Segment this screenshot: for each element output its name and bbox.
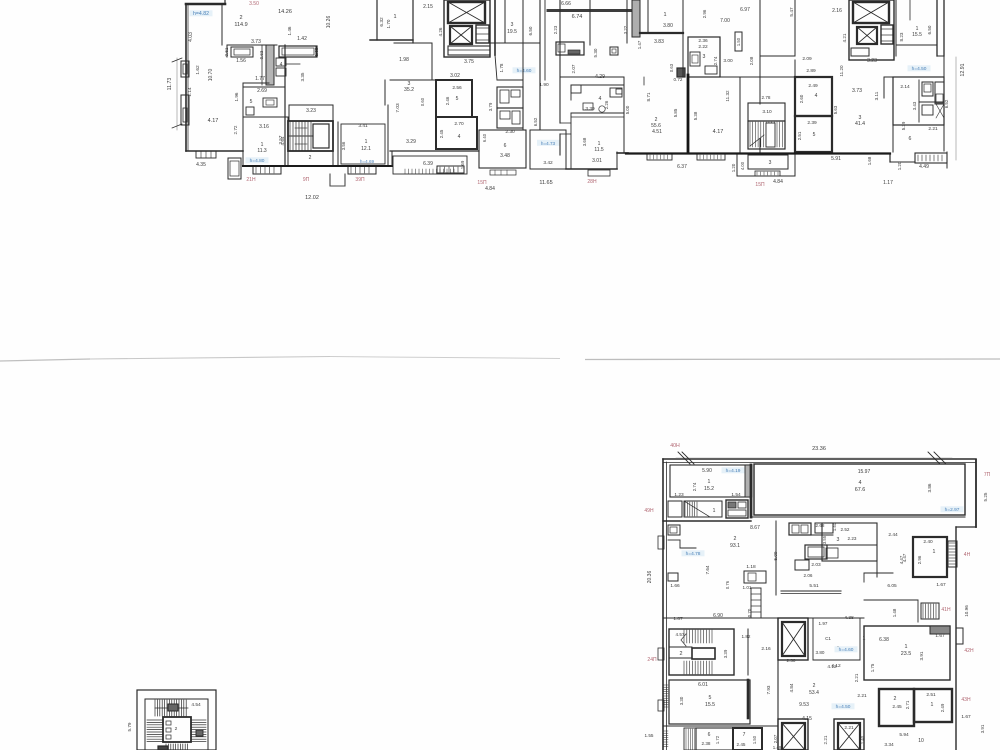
corridor walls [284, 45, 286, 166]
walls right bottom [892, 77, 894, 152]
room 3.10 [748, 103, 785, 121]
corridor line y77 [560, 76, 624, 78]
svg-text:2.74: 2.74 [692, 482, 697, 491]
svg-text:5.38: 5.38 [693, 111, 698, 120]
svg-text:1: 1 [905, 644, 908, 650]
svg-text:4: 4 [280, 62, 283, 68]
porch steps 1 [253, 166, 281, 174]
kitchen counters [231, 47, 253, 57]
porch mid (6.37) [647, 154, 672, 160]
room 1 (2.40) right [913, 537, 947, 577]
svg-text:6.05: 6.05 [887, 583, 897, 589]
svg-text:1.49: 1.49 [773, 745, 782, 750]
svg-text:1.87: 1.87 [673, 616, 683, 622]
br wall room93 right [775, 521, 777, 595]
svg-text:5.39: 5.39 [901, 121, 906, 130]
svg-text:53.4: 53.4 [809, 690, 819, 696]
svg-text:15.5: 15.5 [912, 32, 922, 38]
room 1 (3.80) [640, 32, 683, 34]
svg-text:1.23: 1.23 [674, 492, 684, 498]
svg-text:3: 3 [511, 22, 514, 28]
svg-text:8.71: 8.71 [646, 92, 651, 101]
bath 3 (x688..720) [688, 37, 720, 77]
svg-text:6: 6 [708, 732, 711, 738]
ml outer rect [137, 690, 216, 750]
svg-text:1.20: 1.20 [731, 163, 736, 172]
svg-text:1.56: 1.56 [236, 58, 246, 64]
svg-text:1: 1 [933, 549, 936, 555]
shaft right of vestibule [726, 500, 748, 518]
svg-text:3.80: 3.80 [816, 650, 825, 655]
svg-text:19.5: 19.5 [507, 29, 517, 35]
svg-text:3.30: 3.30 [679, 696, 684, 705]
svg-text:h=4.19: h=4.19 [726, 468, 741, 474]
kitchen bar left [556, 42, 584, 55]
svg-text:h=4.82: h=4.82 [193, 11, 209, 17]
svg-text:3.91: 3.91 [919, 651, 924, 660]
svg-text:9.53: 9.53 [799, 702, 809, 708]
corridor walls top plan [384, 80, 386, 105]
svg-text:3.50: 3.50 [249, 1, 259, 7]
room 3/19.5 top mid [504, 0, 506, 43]
svg-text:2.40: 2.40 [923, 539, 933, 545]
svg-text:2.60: 2.60 [799, 94, 804, 103]
svg-text:2.52: 2.52 [841, 527, 850, 532]
svg-text:3.73: 3.73 [251, 39, 261, 45]
svg-text:4: 4 [815, 93, 818, 99]
svg-text:2.74: 2.74 [713, 56, 718, 65]
rooms 2 and 1 bottom right [879, 689, 914, 726]
svg-text:2.46: 2.46 [445, 96, 450, 105]
svg-text:24П: 24П [647, 657, 657, 663]
svg-text:2.96: 2.96 [702, 9, 707, 18]
svg-text:6.37: 6.37 [677, 164, 687, 170]
bottom-right porch [889, 155, 891, 162]
room 2 (93.1) [682, 550, 705, 556]
svg-text:7.00: 7.00 [720, 18, 730, 24]
room 3 (35.2) [390, 79, 436, 81]
svg-text:11.65: 11.65 [539, 180, 552, 186]
svg-text:35.2: 35.2 [404, 87, 414, 93]
svg-text:1.50: 1.50 [736, 37, 741, 46]
svg-text:7: 7 [743, 732, 746, 738]
svg-text:2.56: 2.56 [452, 85, 462, 91]
svg-text:14.26: 14.26 [278, 9, 292, 15]
svg-text:7.93: 7.93 [766, 685, 771, 694]
svg-text:5.30: 5.30 [593, 48, 598, 57]
svg-text:1.47: 1.47 [637, 40, 642, 49]
svg-text:20.36: 20.36 [647, 571, 653, 584]
right outer double wall [936, 0, 938, 56]
ml top hatch band [154, 700, 156, 716]
svg-text:1.97: 1.97 [819, 621, 828, 626]
svg-text:2: 2 [680, 651, 683, 657]
bath cluster mid [497, 87, 523, 108]
svg-text:6.38: 6.38 [879, 637, 889, 643]
wall x795 upper [794, 0, 796, 56]
svg-text:1.98: 1.98 [399, 57, 409, 63]
svg-text:4.12: 4.12 [831, 663, 841, 669]
elevators bottom pair [778, 719, 808, 750]
bottom wall right section [566, 168, 617, 170]
svg-text:28Н: 28Н [587, 179, 597, 185]
svg-text:3.22: 3.22 [623, 25, 628, 34]
svg-text:1.40: 1.40 [860, 735, 865, 744]
svg-text:93.1: 93.1 [730, 543, 740, 549]
svg-text:4.00: 4.00 [740, 161, 745, 170]
dark meter box [677, 68, 685, 77]
svg-text:4.17: 4.17 [713, 129, 724, 135]
svg-text:4.47: 4.47 [899, 555, 904, 564]
svg-text:4.84: 4.84 [773, 179, 783, 185]
svg-text:3.39: 3.39 [723, 649, 728, 658]
svg-text:10.26: 10.26 [326, 16, 332, 29]
wc room 5 [243, 87, 285, 117]
svg-text:2.21: 2.21 [844, 725, 854, 731]
svg-text:2.07: 2.07 [773, 734, 778, 743]
svg-text:0.61: 0.61 [224, 47, 229, 56]
svg-text:10: 10 [918, 738, 924, 744]
svg-text:3.48: 3.48 [500, 153, 510, 159]
svg-text:2.71: 2.71 [905, 700, 910, 709]
svg-text:2.36: 2.36 [698, 38, 708, 44]
left facade ledges [181, 61, 189, 77]
top plan bottom wall bold [626, 152, 890, 154]
svg-text:1.42: 1.42 [297, 36, 307, 42]
svg-text:2.89: 2.89 [806, 68, 816, 74]
svg-text:10.70: 10.70 [208, 69, 214, 82]
svg-text:1: 1 [713, 508, 716, 514]
svg-text:3.29: 3.29 [406, 139, 416, 145]
right rooms walls [794, 60, 796, 77]
svg-text:1.54: 1.54 [731, 492, 741, 498]
room 5 box right [795, 116, 832, 152]
room 5 box [436, 80, 472, 117]
svg-text:1.48: 1.48 [892, 608, 897, 617]
svg-text:11.20: 11.20 [839, 65, 844, 77]
hall below elevators [431, 43, 433, 80]
left wall protrusions [668, 525, 680, 535]
svg-text:2.03: 2.03 [811, 562, 821, 568]
walls mid [522, 0, 524, 130]
svg-text:2.45: 2.45 [892, 704, 902, 710]
svg-text:3.57: 3.57 [278, 135, 283, 144]
svg-text:1.82: 1.82 [742, 634, 751, 639]
left dimension line 11.73 [176, 58, 178, 130]
svg-text:2.72: 2.72 [233, 125, 238, 134]
svg-text:3.10: 3.10 [762, 109, 772, 115]
svg-text:1.72: 1.72 [715, 735, 720, 744]
svg-text:2.49: 2.49 [808, 83, 818, 89]
svg-text:4.84: 4.84 [789, 683, 794, 692]
svg-text:1.67: 1.67 [936, 582, 946, 588]
svg-text:40Н: 40Н [670, 443, 680, 449]
svg-text:h=4.50: h=4.50 [912, 66, 927, 72]
svg-text:2.45: 2.45 [737, 742, 746, 747]
room 3.23 top [289, 105, 333, 121]
room 12.1 [341, 124, 385, 164]
top plan outer left wall [185, 4, 187, 151]
svg-text:2: 2 [813, 683, 816, 689]
shelf 1.50 [735, 32, 742, 51]
svg-text:2.07: 2.07 [571, 64, 576, 73]
svg-text:2.16: 2.16 [761, 646, 771, 652]
svg-text:3.56: 3.56 [341, 141, 346, 150]
svg-text:2.08: 2.08 [749, 56, 754, 65]
svg-text:6.74: 6.74 [572, 14, 583, 20]
svg-text:h=4.60: h=4.60 [517, 68, 532, 74]
svg-text:2.38: 2.38 [702, 741, 711, 746]
svg-text:5.47: 5.47 [789, 7, 795, 17]
svg-text:2: 2 [734, 536, 737, 542]
svg-text:4: 4 [859, 480, 862, 486]
svg-text:2.06: 2.06 [804, 573, 813, 578]
room 5 (15.5) [669, 680, 750, 724]
svg-text:21Н: 21Н [246, 177, 256, 183]
svg-text:1.67: 1.67 [961, 714, 971, 720]
vent shaft column [266, 45, 274, 85]
svg-text:2.21: 2.21 [857, 693, 867, 699]
svg-text:2.09: 2.09 [802, 56, 812, 62]
svg-text:h=4.69: h=4.69 [360, 159, 375, 164]
svg-text:3.80: 3.80 [663, 23, 673, 29]
svg-text:41.4: 41.4 [855, 121, 865, 127]
svg-text:7.64: 7.64 [705, 565, 710, 574]
svg-text:h=4.78: h=4.78 [686, 551, 701, 557]
svg-text:4.21: 4.21 [842, 33, 847, 42]
svg-text:3.11: 3.11 [874, 91, 879, 100]
svg-text:1: 1 [931, 702, 934, 708]
room 1 top (x370..432) [376, 0, 378, 40]
window band left room [196, 151, 216, 158]
svg-text:0.76: 0.76 [725, 580, 730, 589]
svg-text:2.30: 2.30 [787, 658, 796, 663]
svg-text:1.20: 1.20 [897, 161, 902, 170]
svg-text:h=2.97: h=2.97 [945, 507, 960, 513]
svg-text:h=4.80: h=4.80 [250, 158, 265, 164]
svg-text:2.45: 2.45 [439, 129, 444, 138]
svg-text:0.63: 0.63 [259, 50, 264, 59]
svg-text:4Н: 4Н [964, 552, 971, 558]
svg-text:41Н: 41Н [941, 607, 951, 613]
kitchen block right [789, 523, 811, 535]
svg-text:1.75: 1.75 [870, 663, 875, 672]
svg-text:23.5: 23.5 [901, 651, 912, 657]
svg-text:6.50: 6.50 [528, 26, 533, 35]
room 4 cluster left [571, 84, 624, 86]
svg-text:15.97: 15.97 [858, 469, 871, 475]
svg-text:11.3: 11.3 [257, 148, 267, 154]
svg-text:6.32: 6.32 [379, 17, 385, 27]
svg-text:1.90: 1.90 [539, 82, 549, 88]
svg-text:2.21: 2.21 [854, 673, 859, 682]
ml center room [163, 717, 191, 742]
svg-text:0.72: 0.72 [674, 77, 683, 82]
verticals lower band [623, 77, 625, 153]
entrance room 3 [736, 155, 738, 176]
svg-text:1.96: 1.96 [234, 92, 239, 101]
svg-text:3.00: 3.00 [723, 58, 733, 64]
page seam line [0, 359, 90, 361]
vestibule below [668, 501, 682, 517]
svg-text:3: 3 [837, 537, 840, 543]
corridor right of stair [747, 629, 749, 675]
svg-text:1.46: 1.46 [287, 26, 292, 35]
svg-text:11.73: 11.73 [167, 78, 173, 91]
room 1 (23.5) [864, 626, 950, 680]
svg-text:5: 5 [250, 99, 253, 105]
svg-text:5.00: 5.00 [625, 105, 630, 114]
elevator core right [849, 0, 894, 60]
svg-text:2.16: 2.16 [832, 8, 842, 14]
svg-text:2.22: 2.22 [698, 44, 708, 50]
svg-text:9П: 9П [303, 177, 310, 183]
svg-text:1.69: 1.69 [460, 160, 465, 169]
svg-text:43Н: 43Н [961, 697, 971, 703]
bottom-left outer wall [186, 150, 243, 152]
svg-text:2.21: 2.21 [823, 735, 828, 744]
svg-text:5.63: 5.63 [833, 105, 838, 114]
hatched wall column [632, 0, 640, 37]
svg-text:12.02: 12.02 [305, 195, 319, 201]
svg-text:11.5: 11.5 [594, 147, 604, 153]
svg-text:4.35: 4.35 [196, 162, 206, 168]
svg-text:4.17: 4.17 [208, 118, 219, 124]
svg-text:4.49: 4.49 [919, 164, 929, 170]
svg-text:2: 2 [175, 726, 178, 732]
interior long walls [682, 0, 684, 77]
top plan room-divider walls upper band [221, 4, 223, 45]
svg-text:3.23: 3.23 [306, 108, 316, 114]
svg-text:5.25: 5.25 [983, 492, 988, 501]
stair small right [921, 603, 939, 619]
svg-text:15П: 15П [755, 182, 765, 188]
bath module right2 [822, 523, 877, 561]
svg-text:3.02: 3.02 [450, 73, 460, 79]
svg-text:1.77: 1.77 [255, 76, 265, 82]
svg-text:6.52: 6.52 [533, 117, 538, 126]
svg-text:6.01: 6.01 [698, 682, 708, 688]
svg-text:2.96: 2.96 [917, 555, 922, 564]
svg-text:5.94: 5.94 [899, 732, 909, 738]
svg-text:0.60: 0.60 [420, 97, 425, 106]
radiator hatch right [948, 541, 957, 567]
svg-text:6.40: 6.40 [482, 133, 487, 142]
svg-text:h=4.60: h=4.60 [839, 647, 854, 653]
svg-text:1.70: 1.70 [386, 19, 391, 28]
room 3.42 [530, 130, 566, 169]
svg-text:4.84: 4.84 [485, 186, 495, 192]
svg-text:2.51: 2.51 [797, 131, 802, 140]
svg-text:1.66: 1.66 [670, 583, 680, 589]
top-left thick wall (6.66) [548, 9, 630, 12]
svg-text:6.66: 6.66 [561, 1, 571, 7]
svg-text:2.14: 2.14 [900, 84, 910, 90]
svg-text:1.55: 1.55 [645, 733, 654, 738]
bottom wall mid-left [242, 151, 244, 166]
svg-text:3.42: 3.42 [543, 160, 553, 166]
svg-text:1.18: 1.18 [746, 564, 756, 570]
kitchen wall [227, 44, 277, 46]
svg-text:2.23: 2.23 [848, 536, 857, 541]
svg-text:2: 2 [309, 155, 312, 161]
svg-text:3.55: 3.55 [822, 535, 827, 544]
svg-text:3.79: 3.79 [488, 102, 493, 111]
svg-text:2.49: 2.49 [940, 703, 945, 712]
svg-text:2.44: 2.44 [888, 532, 898, 538]
svg-text:11.32: 11.32 [725, 90, 730, 102]
ml right hatch [191, 719, 206, 721]
room 4 box [436, 117, 477, 149]
svg-text:6.39: 6.39 [423, 161, 433, 167]
svg-text:1: 1 [708, 479, 711, 485]
big room 4 (67.6) [754, 464, 965, 515]
svg-text:4.26: 4.26 [438, 27, 443, 36]
svg-text:3: 3 [769, 160, 772, 166]
svg-text:3.23: 3.23 [867, 58, 877, 64]
corridor wall [663, 520, 751, 522]
svg-text:3.73: 3.73 [852, 88, 862, 94]
svg-text:3.35: 3.35 [300, 72, 305, 81]
top plan top-left wall [186, 3, 225, 6]
svg-text:2.21: 2.21 [928, 126, 938, 132]
svg-text:3.16: 3.16 [259, 124, 269, 130]
svg-text:10.96: 10.96 [964, 605, 969, 617]
svg-text:1: 1 [365, 139, 368, 145]
svg-text:2.23: 2.23 [553, 25, 558, 34]
svg-text:3.86: 3.86 [927, 483, 932, 492]
svg-text:6.97: 6.97 [740, 7, 750, 13]
br outer walls [663, 458, 976, 460]
svg-text:3.43: 3.43 [912, 101, 917, 110]
room 1 (11.5) left [560, 122, 571, 124]
svg-text:3.34: 3.34 [884, 742, 894, 748]
svg-text:2.70: 2.70 [454, 121, 464, 127]
svg-text:3.91: 3.91 [980, 724, 985, 733]
svg-text:6.50: 6.50 [927, 25, 932, 34]
svg-text:1.17: 1.17 [883, 180, 893, 186]
dim line right [955, 57, 957, 160]
svg-text:4.03: 4.03 [188, 32, 194, 42]
room 1 (15.2) [670, 465, 750, 497]
svg-text:4.51: 4.51 [652, 129, 662, 135]
svg-text:6: 6 [909, 136, 912, 142]
elevator core left [444, 0, 490, 57]
svg-text:2.68: 2.68 [816, 523, 825, 528]
svg-text:3.68: 3.68 [582, 137, 587, 146]
svg-text:12.91: 12.91 [960, 63, 966, 76]
svg-text:4.54: 4.54 [191, 702, 201, 708]
svg-text:0.63: 0.63 [669, 63, 674, 72]
top tick marks [678, 452, 690, 464]
svg-text:2.39: 2.39 [807, 120, 817, 126]
ml bottom [165, 744, 167, 750]
svg-text:5.85: 5.85 [673, 108, 678, 117]
svg-text:67.6: 67.6 [855, 487, 866, 493]
ml left hatch [147, 719, 163, 721]
entry porch left [228, 158, 241, 179]
ml inner rect [145, 699, 208, 750]
svg-text:2: 2 [239, 15, 242, 21]
svg-text:5.51: 5.51 [809, 583, 819, 589]
svg-text:5: 5 [709, 695, 712, 701]
room 6 [479, 130, 526, 168]
svg-text:3.75: 3.75 [464, 59, 474, 65]
svg-text:23.36: 23.36 [812, 446, 826, 452]
svg-text:1.62: 1.62 [195, 65, 201, 75]
stair 1 [288, 121, 333, 151]
svg-text:5: 5 [813, 132, 816, 138]
